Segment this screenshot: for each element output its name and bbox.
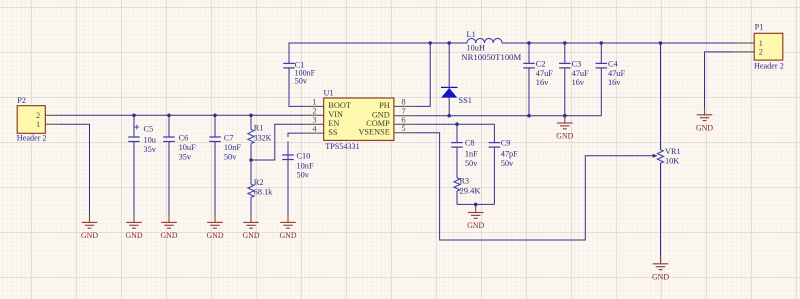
capacitor C2 47uF [523,62,535,64]
svg-text:BOOT: BOOT [328,101,351,110]
wire R1 R2 divider vertical [250,115,252,129]
svg-text:C5: C5 [144,124,154,133]
capacitor C10 10nF [282,154,294,156]
svg-text:16v: 16v [536,78,549,87]
svg-text:C10: C10 [297,152,311,161]
wire C7 vertical [214,115,216,137]
connector P1 body [754,33,783,60]
ground C5 [133,215,135,222]
svg-text:10uH: 10uH [467,43,485,52]
capacitor C6 10uF [163,136,175,138]
ground C8 C9 R3 [475,206,477,213]
svg-text:GND: GND [280,230,297,240]
wire P2 pin1 to GND [58,124,89,215]
svg-text:50v: 50v [465,159,478,168]
svg-text:1: 1 [36,120,40,129]
diode SS1 [441,86,458,88]
svg-text:VSENSE: VSENSE [358,128,389,137]
svg-text:C7: C7 [224,133,234,142]
ground C6 [168,215,170,222]
svg-text:2: 2 [759,48,763,57]
resistor R3 29.4K [454,178,460,191]
svg-text:35v: 35v [144,145,157,154]
P2 pin lines [45,114,58,116]
svg-text:2: 2 [36,111,40,120]
svg-text:SS: SS [328,128,338,137]
svg-text:10uF: 10uF [179,143,196,152]
ground VR1 [660,257,662,264]
svg-text:EN: EN [328,119,339,128]
ground C10 [287,215,289,222]
junction dots VIN rail [132,114,136,118]
wire C1 top to PH rail [289,43,754,63]
svg-text:GND: GND [207,230,224,240]
junction dots GND rail [447,114,451,118]
P1 pin lines [733,42,754,44]
svg-text:R2: R2 [254,178,264,187]
svg-text:VIN: VIN [328,110,343,119]
wire COMP net U1 pin6 to C8 C9 [414,123,494,125]
svg-text:GND: GND [161,230,178,240]
svg-text:50v: 50v [297,171,310,180]
wire VR1 top from output rail [660,43,662,150]
svg-text:SS1: SS1 [459,96,472,105]
svg-text:1: 1 [759,39,763,48]
svg-text:Header 2: Header 2 [17,134,47,143]
svg-text:NR10050T100M: NR10050T100M [461,53,522,62]
potentiometer VR1 10K [657,150,663,163]
inductor L1 10uH [467,38,502,43]
svg-text:10K: 10K [665,156,679,165]
svg-text:C9: C9 [501,139,511,148]
wire gnd stub output caps [564,116,566,117]
wire C9 vertical [493,124,495,142]
wire C10 to GND [287,142,289,216]
ground R2 [250,215,252,222]
wire BOOT net U1 pin1 to C1 [289,68,303,106]
svg-text:29.4K: 29.4K [460,187,481,196]
svg-text:P1: P1 [755,22,764,31]
ground output caps [564,116,566,123]
svg-text:VR1: VR1 [665,147,681,156]
svg-text:Header 2: Header 2 [754,62,784,71]
svg-text:47uF: 47uF [572,69,589,78]
svg-text:68.1k: 68.1k [254,187,273,196]
connector P2 body [17,106,45,134]
svg-text:PH: PH [379,101,390,110]
wire PH pin8 riser [414,43,430,106]
U1 pin lines left [303,105,323,107]
svg-text:47uF: 47uF [536,69,553,78]
svg-text:C2: C2 [536,60,546,69]
capacitor C4 47uF [596,62,608,64]
op-amp U1 TPS54331 body [324,98,394,140]
svg-text:GND: GND [652,271,669,281]
wire C8 C9 bottom to GND [457,203,494,205]
ground C7 [214,215,216,222]
resistor R1 332K [248,130,254,144]
wire SS net from U1 SS to C10 [288,133,303,137]
ground P1 pin2 [704,108,706,115]
capacitor C5 polarized 10u [128,136,140,138]
ground P2 pin1 [89,215,91,222]
wire C4 verticals [600,43,602,63]
capacitor C1 100nF [283,62,295,64]
svg-text:U1: U1 [324,88,334,97]
junction dot EN divider [249,158,253,162]
U1 pin lines right [394,105,414,107]
junction dots top rail [428,41,432,45]
svg-text:GND: GND [556,131,573,141]
wire gnd stub comp [475,204,477,206]
wire C3 verticals [564,43,566,63]
wire EN net from divider to U1 EN [251,124,303,160]
svg-text:5: 5 [401,123,405,133]
svg-text:L1: L1 [467,30,476,39]
svg-text:16v: 16v [572,78,585,87]
resistor R2 68.1k [248,184,254,197]
svg-text:332K: 332K [254,133,272,142]
wire VIN rail from P2 pin2 to U1 VIN [58,114,303,116]
svg-text:GND: GND [126,230,143,240]
capacitor C3 47uF [559,62,571,64]
svg-text:C6: C6 [179,133,189,142]
wire VSENSE feedback loop [414,133,651,240]
svg-text:R3: R3 [460,177,470,186]
svg-text:P2: P2 [17,96,26,105]
wire C6 vertical [168,115,170,137]
junction dot C8 C9 ground [474,203,478,207]
svg-text:10nF: 10nF [224,143,241,152]
svg-text:4: 4 [312,123,317,133]
junction dot COMP C8 [455,122,459,126]
wire C2 verticals [528,43,530,63]
svg-text:10nF: 10nF [297,162,314,171]
svg-text:1nF: 1nF [465,149,478,158]
svg-text:GND: GND [243,230,260,240]
capacitor C9 47pF [489,142,501,144]
svg-text:C8: C8 [465,139,475,148]
svg-text:R1: R1 [254,124,264,133]
svg-text:47pF: 47pF [501,149,518,158]
svg-text:50v: 50v [501,159,514,168]
svg-text:35v: 35v [179,152,192,161]
svg-text:GND: GND [696,122,713,132]
svg-text:GND: GND [81,230,98,240]
svg-text:GND: GND [467,220,484,230]
wire C5 vertical [133,115,135,137]
wire VR1 bottom to GND [660,163,662,257]
svg-text:50v: 50v [295,77,308,86]
capacitor C7 10nF [209,136,221,138]
svg-text:C4: C4 [608,60,619,69]
svg-text:TPS54331: TPS54331 [325,142,360,151]
capacitor C8 1nF [451,142,463,144]
wire C8 vertical and R3 [456,124,458,142]
svg-text:C3: C3 [572,60,582,69]
wire P1 pin2 to GND [705,52,734,108]
svg-text:50v: 50v [224,152,237,161]
svg-text:10u: 10u [144,136,156,145]
wire GND rail pin7 to C4 bottom [414,115,601,117]
svg-text:16v: 16v [608,78,621,87]
svg-text:47uF: 47uF [608,69,625,78]
wire SS1 diode vertical [448,43,450,88]
